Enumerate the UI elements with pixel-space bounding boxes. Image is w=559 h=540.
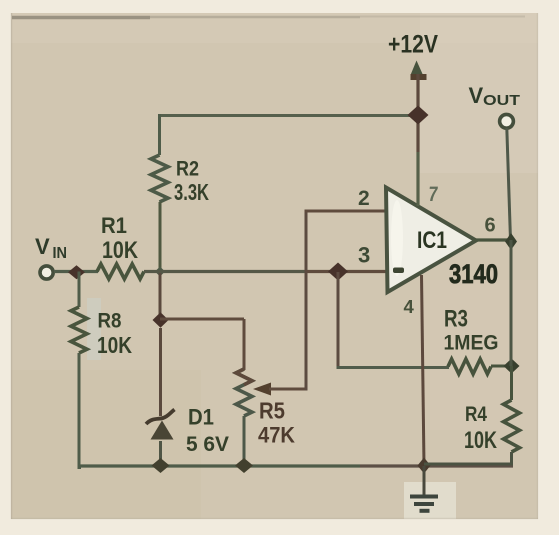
wire output to R3 node xyxy=(510,240,513,366)
svg-text:3.3K: 3.3K xyxy=(174,179,209,205)
wire feedback vertical xyxy=(337,272,340,368)
wire pin2 horizontal xyxy=(305,210,391,213)
potentiometer R5 xyxy=(236,369,271,416)
wire D1 bottom stub xyxy=(159,441,162,466)
op-amp IC1 xyxy=(386,188,476,293)
ground symbol xyxy=(410,497,438,511)
node ground junction xyxy=(418,458,431,474)
node R3/R4 junction xyxy=(504,359,520,374)
svg-text:10K: 10K xyxy=(102,237,139,264)
svg-text:+12V: +12V xyxy=(388,31,438,59)
wire VOUT down xyxy=(507,128,511,240)
label R3 1MEG xyxy=(444,306,499,355)
wire R2 bottom stub xyxy=(159,202,162,272)
label R8 10K xyxy=(97,310,132,359)
label D1 5.6V xyxy=(186,405,229,457)
wire D1 top stub xyxy=(159,328,162,416)
svg-text:R5: R5 xyxy=(259,398,285,424)
svg-text:3: 3 xyxy=(358,243,370,268)
svg-text:R2: R2 xyxy=(176,158,199,181)
resistor R4 xyxy=(504,400,520,452)
wire R8 bottom stub xyxy=(79,353,81,468)
wire R5 bottom stub xyxy=(243,416,246,466)
terminal VIN xyxy=(40,266,53,279)
svg-text:1MEG: 1MEG xyxy=(444,332,499,355)
svg-text:R1: R1 xyxy=(101,213,127,238)
svg-text:IC1: IC1 xyxy=(417,227,447,254)
wire R8 top stub xyxy=(78,272,81,308)
svg-text:R8: R8 xyxy=(98,310,122,333)
label R4 10K xyxy=(464,403,497,454)
node +12V junction xyxy=(408,106,429,125)
wire feedback horizontal xyxy=(337,366,450,369)
svg-text:OUT: OUT xyxy=(483,92,520,109)
resistor R1 xyxy=(97,264,144,279)
diode D1 zener xyxy=(146,410,175,440)
wire R4 top stub xyxy=(510,366,513,400)
wire ground stub xyxy=(423,466,426,495)
svg-text:6: 6 xyxy=(485,215,496,237)
svg-text:R3: R3 xyxy=(444,306,468,333)
wire R4 bottom corner xyxy=(424,452,512,464)
node pin3 feedback junction xyxy=(328,263,348,281)
svg-text:2: 2 xyxy=(358,187,370,210)
svg-text:5 6V: 5 6V xyxy=(186,433,229,456)
svg-text:4: 4 xyxy=(404,296,415,317)
wire +12V vertical xyxy=(416,74,419,152)
svg-text:V: V xyxy=(35,234,50,259)
node output junction xyxy=(505,233,517,250)
wire op-amp output xyxy=(474,238,511,241)
wire bottom bus xyxy=(79,464,360,467)
node D1 ground junction xyxy=(152,458,170,473)
svg-text:47K: 47K xyxy=(258,423,295,448)
node R1/R2 junction xyxy=(155,267,165,277)
svg-text:D1: D1 xyxy=(188,405,214,430)
label VIN xyxy=(35,234,67,262)
svg-text:IN: IN xyxy=(53,245,68,262)
node VIN/R8 junction xyxy=(68,265,85,279)
node D1/R5 branch junction xyxy=(153,312,169,328)
power +12V arrow xyxy=(411,61,427,81)
wire top bus xyxy=(159,114,418,117)
label R2 3.3K xyxy=(174,158,209,206)
label R5 47K xyxy=(258,398,295,448)
wire R1 to pin3 xyxy=(144,270,305,273)
wire wiper vertical riser xyxy=(305,211,308,391)
wire R3 to output node xyxy=(491,365,512,368)
svg-text:V: V xyxy=(469,83,484,108)
label R1 10K xyxy=(101,213,139,264)
resistor R3 xyxy=(448,359,491,374)
svg-text:10K: 10K xyxy=(464,427,497,454)
wire R5 wiper horizontal xyxy=(269,388,306,391)
node R5 ground junction xyxy=(235,458,253,473)
wire branch to R5 horizontal xyxy=(160,318,244,321)
resistor R2 xyxy=(151,155,168,202)
resistor R8 xyxy=(71,307,87,353)
svg-text:R4: R4 xyxy=(465,403,487,426)
svg-text:3140: 3140 xyxy=(449,259,498,289)
wire R5 top stub xyxy=(243,319,246,370)
wire VIN to R1 xyxy=(54,270,98,273)
label VOUT xyxy=(469,83,521,109)
wire R2 junction to D1 node xyxy=(159,272,162,320)
wire pin4 vertical xyxy=(422,275,425,465)
wire R2 top stub xyxy=(158,114,161,155)
svg-text:10K: 10K xyxy=(97,332,132,358)
terminal VOUT xyxy=(500,114,514,128)
